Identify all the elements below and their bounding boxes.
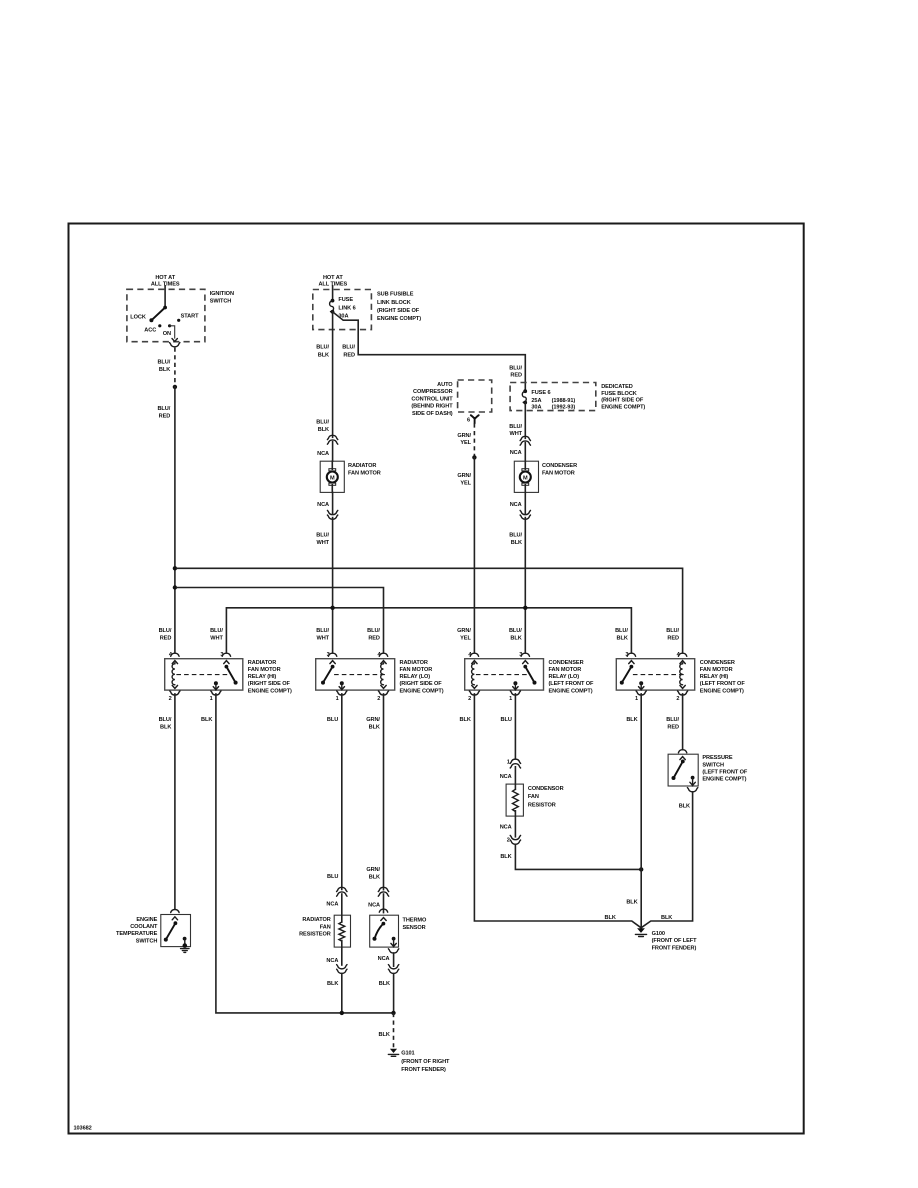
svg-text:BLK: BLK [679, 804, 690, 810]
relay K3 condenser fan motor relay LO box [465, 659, 544, 690]
svg-text:RADIATOR: RADIATOR [348, 463, 376, 469]
svg-text:HOT AT: HOT AT [323, 275, 343, 281]
svg-text:BLK: BLK [327, 981, 338, 987]
in-line connector above thermo sensor [378, 887, 388, 896]
svg-text:WHT: WHT [210, 636, 223, 642]
svg-text:ENGINE COMPT): ENGINE COMPT) [377, 316, 421, 322]
svg-text:(FRONT OF RIGHT: (FRONT OF RIGHT [401, 1059, 450, 1065]
fuse value label FUSE 6 25A/30A [531, 390, 575, 411]
ground G100 name label [652, 931, 698, 952]
svg-text:NCA: NCA [378, 956, 390, 962]
svg-text:(LEFT FRONT OF: (LEFT FRONT OF [549, 681, 595, 687]
wire label BLK near G100 left [605, 915, 616, 921]
svg-text:ENGINE COMPT): ENGINE COMPT) [700, 688, 744, 694]
wire label NCA [510, 450, 522, 456]
relay K4 condenser fan motor relay HI switch contacts [620, 665, 644, 690]
svg-text:BLK: BLK [511, 540, 522, 546]
wire label BLK below G100 junction [626, 900, 637, 906]
relay K4 condenser fan motor relay HI pin 1 (bottom) [635, 691, 646, 702]
svg-text:2: 2 [468, 696, 471, 702]
wire label BLU/WHT above relay2 pin3 [316, 628, 329, 642]
wire BLK relay4 pin1 to G100 [640, 694, 642, 929]
svg-text:(LEFT FRONT OF: (LEFT FRONT OF [702, 769, 748, 775]
relay K2 radiator fan motor relay LO switch contacts [321, 665, 345, 690]
ignition switch SW1 [127, 286, 205, 342]
svg-text:CONTROL UNIT: CONTROL UNIT [411, 396, 453, 402]
svg-text:(LEFT FRONT OF: (LEFT FRONT OF [700, 681, 746, 687]
connector below pressure switch [687, 788, 697, 792]
svg-text:DEDICATED: DEDICATED [601, 384, 633, 390]
svg-text:BLU: BLU [327, 717, 338, 723]
svg-text:RED: RED [667, 636, 679, 642]
relay K1 radiator fan motor relay HI switch contacts [213, 665, 237, 690]
ground G100 [635, 928, 646, 936]
ignition switch position label ON [163, 331, 171, 337]
thermo sensor S3 [370, 915, 399, 947]
svg-text:RELAY (LO): RELAY (LO) [400, 674, 431, 680]
svg-text:BLK: BLK [626, 717, 637, 723]
svg-text:FAN: FAN [320, 924, 331, 930]
svg-text:COMPRESSOR: COMPRESSOR [413, 389, 453, 395]
wire label NCA [326, 901, 338, 907]
svg-text:SWITCH: SWITCH [210, 298, 232, 304]
wire label BLU below relay3 pin1 [501, 717, 512, 723]
dedicated fuse block name label [601, 384, 645, 411]
wire label BLU/RED [157, 406, 170, 420]
wire label BLK [327, 981, 338, 987]
relay K1 radiator fan motor relay HI pin 4 (top) [169, 652, 179, 663]
svg-text:CONDENSOR: CONDENSOR [528, 786, 564, 792]
svg-text:M: M [523, 475, 528, 481]
svg-text:BLU: BLU [501, 717, 512, 723]
svg-text:2: 2 [676, 696, 679, 702]
wire BLK relay3 pin2 to G100 [474, 694, 640, 928]
svg-text:BLK: BLK [510, 636, 521, 642]
svg-text:THERMO: THERMO [403, 918, 427, 924]
wire label BLK below relay1 pin1 [201, 717, 212, 723]
node HOT AT ALL TIMES (fusible link feed) [318, 275, 347, 288]
pin 6 of auto compressor control unit [467, 415, 479, 424]
wire label BLK below relay4 pin1 [626, 717, 637, 723]
svg-text:BLK: BLK [318, 352, 329, 358]
svg-text:BLU/: BLU/ [615, 628, 628, 634]
condenser fan motor M2 [514, 461, 538, 492]
connector above thermo sensor box [379, 909, 387, 912]
refrigerant pressure switch S4 [668, 754, 698, 786]
svg-text:BLK: BLK [318, 427, 329, 433]
svg-text:NCA: NCA [368, 903, 380, 909]
svg-text:BLU/: BLU/ [509, 532, 522, 538]
condenser fan resistor name label [528, 786, 564, 808]
relay K2 radiator fan motor relay LO actuating line (dashed) [334, 674, 385, 676]
wire label BLU below relay2 pin1 [327, 717, 338, 723]
wire GRN/YEL splice to condenser fan relay LO coil [473, 457, 475, 652]
relay K2 radiator fan motor relay LO name label [400, 660, 444, 694]
in-line connector above condenser fan motor [520, 436, 530, 445]
fuse 6 [522, 389, 527, 404]
svg-text:ENGINE COMPT): ENGINE COMPT) [702, 777, 746, 783]
svg-text:RED: RED [343, 352, 355, 358]
svg-text:GRN/: GRN/ [366, 717, 380, 723]
svg-text:BLK: BLK [201, 717, 212, 723]
pressure switch name label [702, 755, 748, 782]
in-line connector 2 below condenser fan resistor [507, 835, 521, 844]
wire label BLU/RED at dedicated fuse block [509, 365, 522, 378]
svg-text:ENGINE COMPT): ENGINE COMPT) [248, 688, 292, 694]
connector below thermo sensor [388, 949, 398, 953]
relay K2 radiator fan motor relay LO pin 1 (bottom) [336, 691, 347, 702]
wire label BLU/WHT [316, 532, 329, 546]
svg-text:ENGINE COMPT): ENGINE COMPT) [400, 688, 444, 694]
svg-text:G101: G101 [401, 1051, 414, 1057]
sub fusible link block (dashed box) [313, 290, 372, 330]
svg-text:BLU/: BLU/ [316, 532, 329, 538]
svg-text:SWITCH: SWITCH [136, 938, 158, 944]
svg-text:(1992-93): (1992-93) [552, 404, 576, 410]
svg-text:LINK BLOCK: LINK BLOCK [377, 300, 411, 306]
wire BLU/BLK relay1 pin2 to engine coolant temp switch [174, 694, 176, 909]
relay K4 condenser fan motor relay HI name label [700, 660, 746, 694]
engine coolant temperature switch name label [116, 917, 158, 944]
wire label GRN/YEL above relay3 pin4 [457, 628, 471, 642]
svg-text:(RIGHT SIDE OF: (RIGHT SIDE OF [601, 398, 644, 404]
svg-text:RADIATOR: RADIATOR [248, 660, 276, 666]
radiator fan resistor R1 [334, 894, 350, 965]
wire label BLU//RED below relay4 pin2 [666, 717, 679, 731]
svg-text:NCA: NCA [510, 502, 522, 508]
wire label BLU/RED [342, 345, 355, 359]
svg-text:1: 1 [210, 696, 213, 702]
svg-text:ENGINE COMPT): ENGINE COMPT) [601, 404, 645, 410]
wire BLU/WHT fuse 6 to condenser fan motor [524, 403, 526, 462]
auto compressor control unit name label [411, 382, 453, 417]
relay K3 condenser fan motor relay LO switch contacts [513, 665, 537, 690]
svg-text:GRN/: GRN/ [457, 433, 471, 439]
wire GRN/BLK relay2 pin2 to thermo sensor [383, 694, 385, 913]
wire BLU/BLK condenser fan motor to relay LO [524, 492, 526, 652]
svg-text:BLU/: BLU/ [509, 628, 522, 634]
relay K1 radiator fan motor relay HI pin 3 (top) [220, 652, 230, 663]
wire BLU/RED fusible link tap to dedicated fuse block [333, 312, 526, 391]
svg-text:WHT: WHT [317, 540, 330, 546]
svg-text:BLU/: BLU/ [666, 717, 679, 723]
svg-text:ON: ON [163, 331, 171, 337]
wire label NCA [500, 774, 512, 780]
svg-text:BLU/: BLU/ [666, 628, 679, 634]
svg-text:2: 2 [507, 837, 510, 843]
wire label BLK [379, 981, 390, 987]
svg-text:NCA: NCA [317, 502, 329, 508]
relay K3 condenser fan motor relay LO pin 3 (top) [519, 652, 529, 663]
junction dot BLU/RED bus lower [173, 585, 177, 589]
svg-text:BLK: BLK [626, 900, 637, 906]
svg-text:IGNITION: IGNITION [210, 291, 234, 297]
svg-text:BLU/: BLU/ [509, 365, 522, 371]
wire BLK resistor to ground junction [341, 974, 343, 1013]
node HOT AT ALL TIMES (ignition feed) [151, 275, 180, 288]
relay K1 radiator fan motor relay HI name label [248, 660, 292, 694]
wire label NCA below thermo sensor [378, 956, 390, 962]
wire BLK relay1 pin1 to ground junction [216, 694, 394, 1013]
svg-text:START: START [181, 314, 199, 320]
svg-text:WHT: WHT [317, 636, 330, 642]
connector above engine coolant temperature switch [171, 910, 179, 913]
wire label BLU/BLK above radiator fan motor [316, 420, 329, 433]
wire BLU/WHT radiator fan motor to relay LO [332, 492, 334, 652]
svg-text:FUSE: FUSE [338, 297, 353, 303]
svg-text:NCA: NCA [317, 451, 329, 457]
relay K4 condenser fan motor relay HI pin 2 (bottom) [676, 691, 687, 702]
relay K2 radiator fan motor relay LO coil [381, 663, 387, 689]
svg-text:BLK: BLK [500, 854, 511, 860]
junction dot at condenser motor wire [523, 606, 527, 610]
in-line connector below radiator fan resistor [337, 965, 347, 974]
wire label GRN/BLK [366, 867, 380, 880]
relay K3 condenser fan motor relay LO pin 1 (bottom) [509, 691, 520, 702]
svg-text:FAN MOTOR: FAN MOTOR [400, 667, 433, 673]
radiator fan motor name label [348, 463, 381, 477]
svg-text:SWITCH: SWITCH [702, 762, 724, 768]
relay K2 radiator fan motor relay LO pin 3 (top) [327, 652, 337, 663]
svg-text:(RIGHT SIDE OF: (RIGHT SIDE OF [400, 681, 443, 687]
svg-text:PRESSURE: PRESSURE [702, 755, 732, 761]
relay K4 condenser fan motor relay HI actuating line (dashed) [633, 674, 684, 676]
in-line connector below radiator fan motor [327, 510, 337, 519]
wire label BLU/BLK [316, 345, 329, 359]
wire label BLK [500, 854, 511, 860]
wire label BLU/BLK above relay3 pin3 [509, 628, 522, 642]
svg-text:BLU/: BLU/ [367, 628, 380, 634]
svg-text:RADIATOR: RADIATOR [400, 660, 428, 666]
wire label NCA below motor [317, 502, 329, 508]
svg-text:(FRONT OF LEFT: (FRONT OF LEFT [652, 938, 698, 944]
svg-text:30A: 30A [531, 404, 541, 410]
svg-text:FAN MOTOR: FAN MOTOR [248, 667, 281, 673]
wire BLK condenser resistor to relay4 pin1 wire [515, 844, 641, 869]
svg-text:BLU/: BLU/ [342, 345, 355, 351]
wire BLU relay3 pin1 to condenser fan resistor [514, 694, 516, 758]
svg-text:CONDENSER: CONDENSER [549, 660, 584, 666]
relay K1 radiator fan motor relay HI actuating line (dashed) [176, 674, 228, 676]
svg-text:RESISTEOR: RESISTEOR [299, 931, 331, 937]
relay K3 condenser fan motor relay LO actuating line (dashed) [476, 674, 527, 676]
svg-text:BLK: BLK [160, 725, 171, 731]
svg-text:GRN/: GRN/ [457, 628, 471, 634]
relay K2 radiator fan motor relay LO box [316, 659, 395, 690]
relay K4 condenser fan motor relay HI coil [680, 663, 686, 689]
svg-text:1: 1 [336, 696, 339, 702]
condenser fan motor name label [542, 463, 577, 477]
junction dot on relay4 pin1 wire [639, 867, 643, 871]
svg-text:NCA: NCA [500, 774, 512, 780]
junction dot BLU/RED bus upper [173, 566, 177, 570]
svg-text:RELAY (HI): RELAY (HI) [700, 674, 729, 680]
svg-text:SENSOR: SENSOR [403, 925, 426, 931]
relay K1 radiator fan motor relay HI box [165, 659, 243, 690]
wire BLK thermo sensor to ground junction [393, 953, 395, 1013]
svg-text:G100: G100 [652, 931, 665, 937]
svg-text:ENGINE COMPT): ENGINE COMPT) [549, 688, 593, 694]
wire label BLK [379, 1032, 390, 1038]
wire label GRN//BLK below relay2 pin2 [366, 717, 380, 731]
svg-text:NCA: NCA [326, 958, 338, 964]
svg-text:GRN/: GRN/ [366, 867, 380, 873]
svg-text:BLK: BLK [661, 915, 672, 921]
svg-text:BLK: BLK [605, 915, 616, 921]
svg-text:RED: RED [667, 725, 679, 731]
svg-text:RESISTOR: RESISTOR [528, 802, 556, 808]
svg-text:(BEHIND RIGHT: (BEHIND RIGHT [411, 404, 453, 410]
svg-text:GRN/: GRN/ [457, 473, 471, 479]
relay K3 condenser fan motor relay LO name label [549, 660, 595, 694]
svg-text:ACC: ACC [144, 328, 156, 334]
svg-text:BLU: BLU [327, 874, 338, 880]
wire label GRN/YEL [457, 433, 471, 446]
wire label BLU/BLK [509, 532, 522, 546]
wire label NCA [368, 903, 380, 909]
svg-text:103682: 103682 [74, 1126, 92, 1132]
splice S-1 (dot) [173, 385, 177, 389]
svg-text:BLK: BLK [369, 875, 380, 881]
svg-text:BLU/: BLU/ [159, 717, 172, 723]
in-line connector 1 above condenser fan resistor [507, 759, 521, 768]
wire BLU/WHT-BLU/BLK crossover bus (relay HI switch feeds) [226, 608, 631, 653]
connector above pressure switch [678, 750, 686, 753]
fuse link 6 30A [330, 286, 335, 314]
wire label BLU/RED above relay2 pin4 [367, 628, 380, 642]
wire label BLU/WHT below fuse 6 [509, 424, 522, 437]
splice S-2 (dot) [472, 455, 476, 459]
ignition switch position label START [181, 314, 199, 320]
thermo sensor name label [403, 918, 427, 932]
svg-text:FRONT FENDER): FRONT FENDER) [401, 1067, 446, 1073]
svg-text:BLK: BLK [379, 1032, 390, 1038]
svg-text:NCA: NCA [326, 901, 338, 907]
wire label NCA below resistor [326, 958, 338, 964]
wire label BLU [327, 874, 338, 880]
svg-text:1: 1 [635, 696, 638, 702]
svg-text:TEMPERATURE: TEMPERATURE [116, 931, 158, 937]
wire BLU/RED bus to radiator fan relay LO coil [177, 588, 384, 653]
wire GRN/YEL from control unit (dashed) [473, 423, 475, 455]
wire label GRN/YEL [457, 473, 471, 486]
in-line connector above radiator fan resistor [337, 887, 347, 896]
svg-text:BLK: BLK [159, 367, 170, 373]
svg-text:FAN MOTOR: FAN MOTOR [348, 471, 381, 477]
auto compressor control unit (dashed box) [458, 380, 492, 412]
svg-text:RELAY (HI): RELAY (HI) [248, 674, 277, 680]
svg-text:RED: RED [510, 372, 522, 378]
wire BLU/RED relay4 pin2 to pressure switch [682, 694, 684, 750]
relay K3 condenser fan motor relay LO pin 4 (top) [468, 652, 478, 663]
wire BLU/BLK fusible link to radiator fan motor [332, 312, 334, 461]
condenser fan resistor R2 [506, 767, 523, 837]
svg-text:BLK: BLK [369, 725, 380, 731]
relay K1 radiator fan motor relay HI pin 2 (bottom) [169, 691, 180, 702]
svg-text:ENGINE: ENGINE [136, 917, 157, 923]
svg-text:(RIGHT SIDE OF: (RIGHT SIDE OF [377, 308, 420, 314]
wire label BLU//BLK below relay1 pin2 [159, 717, 172, 731]
svg-text:BLU/: BLU/ [159, 628, 172, 634]
svg-text:25A: 25A [531, 398, 541, 404]
wire BLK to G101 (dashed) [393, 1013, 395, 1047]
relay K1 radiator fan motor relay HI coil [172, 663, 178, 689]
svg-text:1: 1 [509, 696, 512, 702]
svg-text:BLK: BLK [460, 717, 471, 723]
wire label BLU/BLK [157, 359, 170, 373]
svg-text:SIDE OF DASH): SIDE OF DASH) [412, 411, 453, 417]
svg-text:FUSE 6: FUSE 6 [531, 390, 550, 396]
wire BLU relay2 pin1 to radiator fan resistor [341, 694, 343, 890]
svg-text:CONDENSER: CONDENSER [700, 660, 735, 666]
svg-text:YEL: YEL [460, 480, 471, 486]
svg-text:FAN: FAN [528, 794, 539, 800]
svg-text:BLU/: BLU/ [509, 424, 522, 430]
sub fusible link block name label [377, 292, 421, 323]
engine coolant temperature switch S2 [161, 915, 191, 953]
svg-text:2: 2 [169, 696, 172, 702]
svg-text:NCA: NCA [500, 825, 512, 831]
svg-text:BLU/: BLU/ [316, 345, 329, 351]
svg-text:FAN MOTOR: FAN MOTOR [542, 471, 575, 477]
svg-text:BLU/: BLU/ [210, 628, 223, 634]
wire label BLU/WHT above relay1 pin3 [210, 628, 223, 642]
junction dot at thermo sensor ground [391, 1011, 395, 1015]
svg-text:YEL: YEL [460, 636, 471, 642]
svg-text:SUB FUSIBLE: SUB FUSIBLE [377, 292, 414, 298]
svg-text:HOT AT: HOT AT [155, 275, 175, 281]
svg-text:RADIATOR: RADIATOR [302, 917, 330, 923]
wire BLK pressure switch to G100 [641, 792, 692, 928]
wire label BLU/RED above relay1 pin4 [159, 628, 172, 642]
wire label BLK [679, 804, 690, 810]
svg-text:(RIGHT SIDE OF: (RIGHT SIDE OF [248, 681, 291, 687]
wire label BLU/RED above relay4 pin4 [666, 628, 679, 642]
svg-text:AUTO: AUTO [437, 382, 453, 388]
relay K3 condenser fan motor relay LO coil [472, 663, 478, 689]
wire BLU/RED ignition to relay coils [174, 387, 176, 653]
svg-text:WHT: WHT [510, 431, 523, 437]
svg-text:BLK: BLK [617, 636, 628, 642]
ground G101 [388, 1049, 398, 1057]
in-line connector below condenser fan motor [520, 510, 530, 519]
wire BLU/RED bus to condenser fan relay HI coil [177, 568, 683, 653]
junction dot at radiator resistor ground [340, 1011, 344, 1015]
svg-text:BLU/: BLU/ [316, 420, 329, 426]
svg-text:RED: RED [368, 636, 380, 642]
svg-text:COOLANT: COOLANT [130, 924, 158, 930]
relay K4 condenser fan motor relay HI pin 4 (top) [677, 652, 687, 663]
svg-text:NCA: NCA [510, 450, 522, 456]
svg-text:BLU/: BLU/ [316, 628, 329, 634]
wire label BLU/BLK above relay4 pin3 [615, 628, 628, 642]
connector below ignition switch [170, 343, 180, 347]
svg-text:BLK: BLK [379, 981, 390, 987]
relay K2 radiator fan motor relay LO pin 2 (bottom) [377, 691, 388, 702]
radiator fan resistor name label [299, 917, 331, 937]
svg-text:6: 6 [467, 418, 470, 424]
svg-text:CONDENSER: CONDENSER [542, 463, 577, 469]
svg-text:M: M [330, 475, 335, 481]
svg-text:FAN MOTOR: FAN MOTOR [549, 667, 582, 673]
relay K1 radiator fan motor relay HI pin 1 (bottom) [210, 691, 221, 702]
svg-text:YEL: YEL [460, 440, 471, 446]
svg-text:(1988-91): (1988-91) [552, 398, 576, 404]
svg-text:LOCK: LOCK [130, 315, 146, 321]
junction dot at radiator motor wire [330, 606, 334, 610]
ground G101 name label [401, 1051, 450, 1073]
wire label NCA below motor [510, 502, 522, 508]
